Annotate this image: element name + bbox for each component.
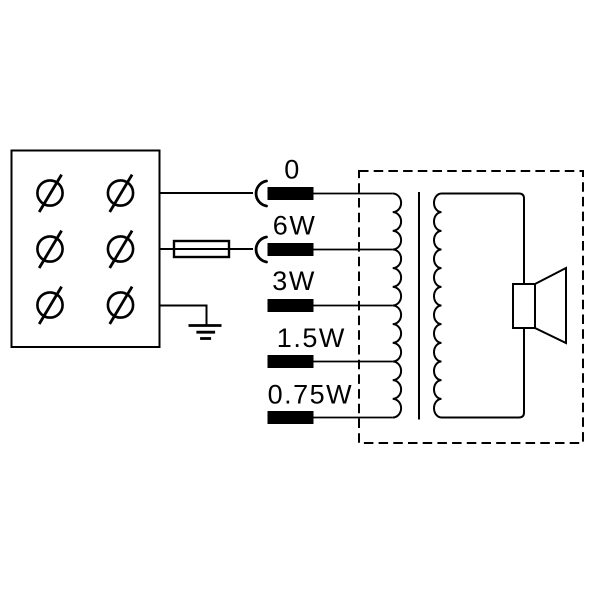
- tap 6W terminal block: [268, 243, 314, 256]
- speaker LS1 magnet body: [513, 284, 535, 328]
- wire from box to ground: [160, 306, 207, 325]
- svg-text:0: 0: [284, 155, 301, 185]
- connector arc at tap 0: [256, 181, 266, 206]
- terminal T6: [108, 287, 133, 324]
- terminal T3: [37, 231, 62, 268]
- tap 0.75W terminal block: [268, 411, 314, 424]
- fuse F1: [174, 241, 229, 257]
- svg-text:1.5W: 1.5W: [277, 323, 346, 353]
- wire secondary loop to speaker: [442, 194, 525, 418]
- transformer primary winding: [393, 194, 401, 418]
- connector arc at tap 6W: [256, 237, 266, 262]
- transformer core: [418, 192, 420, 420]
- terminal T5: [37, 287, 62, 324]
- tap 1.5W terminal block: [268, 355, 314, 368]
- ground: [189, 326, 222, 339]
- tap 0 terminal block: [268, 187, 314, 200]
- terminal T2: [108, 175, 133, 212]
- wire tap 6W to primary: [314, 249, 393, 251]
- tap 3W terminal block: [268, 299, 314, 312]
- wire tap 1.5W to primary: [314, 361, 393, 363]
- svg-text:3W: 3W: [272, 266, 316, 296]
- terminal T1 (circle with slash): [37, 175, 62, 212]
- wire tap 3W to primary: [314, 305, 393, 307]
- wire tap 0.75W to primary bottom: [314, 417, 393, 419]
- transformer dashed enclosure: [359, 171, 583, 443]
- transformer secondary winding: [434, 194, 442, 418]
- wire tap 0 to primary top: [314, 193, 393, 195]
- svg-text:0.75W: 0.75W: [268, 379, 354, 409]
- terminal box (amplifier output terminal block): [12, 151, 160, 348]
- svg-text:6W: 6W: [273, 210, 317, 240]
- wire from box to tap 0 connector: [160, 192, 254, 194]
- terminal T4: [108, 231, 133, 268]
- speaker LS1 cone: [535, 268, 566, 343]
- wire from box through fuse to 6W connector: [160, 248, 254, 250]
